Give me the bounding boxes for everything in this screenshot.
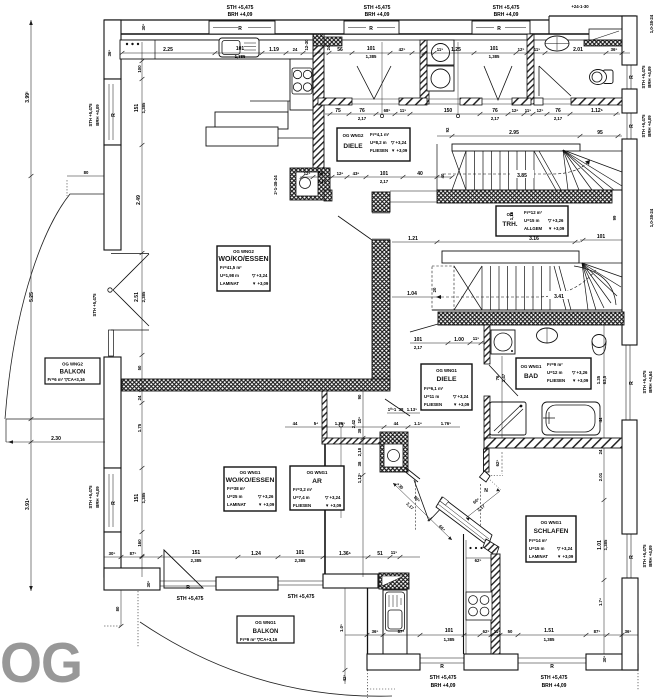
svg-text:N: N (484, 488, 488, 494)
svg-text:11⁵: 11⁵ (437, 47, 444, 52)
svg-text:76: 76 (495, 375, 500, 380)
svg-text:DIELE: DIELE (436, 376, 456, 383)
svg-text:88⁵: 88⁵ (318, 171, 327, 177)
svg-text:BALKON: BALKON (253, 629, 279, 635)
svg-text:50: 50 (508, 629, 513, 634)
svg-text:90: 90 (357, 394, 362, 399)
svg-text:ALLGEM: ALLGEM (524, 226, 543, 231)
svg-text:AR: AR (312, 478, 322, 485)
svg-text:24: 24 (293, 47, 298, 52)
svg-text:1,385: 1,385 (603, 539, 608, 550)
svg-text:151: 151 (134, 494, 140, 503)
svg-text:63,5: 63,5 (602, 375, 607, 384)
svg-text:76: 76 (555, 108, 561, 114)
svg-text:STH +5,475: STH +5,475 (430, 675, 457, 681)
svg-text:1.51: 1.51 (544, 628, 554, 634)
svg-text:87⁵: 87⁵ (594, 629, 601, 634)
svg-text:44: 44 (598, 417, 603, 422)
svg-text:2,17: 2,17 (358, 116, 367, 121)
svg-text:101: 101 (445, 628, 454, 634)
svg-text:R: R (550, 664, 554, 670)
svg-text:FLIESEN: FLIESEN (370, 148, 388, 153)
svg-text:30⁵: 30⁵ (146, 581, 151, 588)
svg-text:2,17: 2,17 (380, 179, 389, 184)
svg-text:R: R (238, 26, 242, 32)
svg-text:BRH +4,64: BRH +4,64 (648, 371, 653, 393)
svg-text:SCHLAFEN: SCHLAFEN (534, 528, 569, 535)
svg-text:LAMINAT: LAMINAT (220, 281, 239, 286)
svg-text:2.95: 2.95 (509, 130, 519, 136)
svg-text:Fr=12 m²: Fr=12 m² (524, 210, 543, 215)
svg-text:BRH +4,09: BRH +4,09 (95, 104, 100, 126)
svg-text:STH +5,475: STH +5,475 (92, 293, 97, 317)
svg-text:20: 20 (432, 287, 437, 292)
svg-text:Fr=41,5 m²: Fr=41,5 m² (220, 265, 242, 270)
svg-text:1.04: 1.04 (407, 291, 417, 297)
svg-text:STH +5,475: STH +5,475 (227, 5, 254, 11)
svg-text:151: 151 (192, 550, 201, 556)
svg-text:24: 24 (326, 45, 331, 50)
svg-text:38: 38 (357, 428, 362, 433)
svg-text:5⁴: 5⁴ (314, 421, 319, 426)
svg-text:2,385: 2,385 (191, 558, 202, 563)
svg-text:1,385: 1,385 (544, 637, 555, 642)
svg-text:1.13⁵: 1.13⁵ (407, 407, 417, 412)
svg-text:STH +5,475: STH +5,475 (642, 544, 647, 568)
svg-text:U=11 m: U=11 m (424, 394, 439, 399)
svg-text:99: 99 (612, 215, 617, 220)
svg-text:2,17: 2,17 (554, 116, 563, 121)
svg-text:R: R (629, 75, 635, 79)
svg-text:BRH +4,09: BRH +4,09 (365, 12, 390, 18)
svg-text:101: 101 (367, 46, 376, 52)
svg-text:U=15 m: U=15 m (524, 218, 540, 223)
svg-text:OG WNG1: OG WNG1 (541, 520, 562, 525)
svg-text:11⁵: 11⁵ (473, 336, 480, 341)
svg-text:Fr=38 m²: Fr=38 m² (227, 486, 246, 491)
svg-text:▽ +3,26: ▽ +3,26 (571, 370, 588, 375)
svg-text:30⁵: 30⁵ (141, 24, 146, 31)
svg-text:40: 40 (440, 173, 445, 178)
svg-text:BRH +4,09: BRH +4,09 (494, 12, 519, 18)
svg-text:1.7⁴: 1.7⁴ (598, 598, 603, 606)
svg-text:1.12⁵: 1.12⁵ (591, 108, 604, 114)
svg-text:12⁵: 12⁵ (518, 47, 525, 52)
svg-text:FLIESEN: FLIESEN (424, 402, 442, 407)
svg-text:1.35: 1.35 (596, 375, 601, 384)
svg-text:▽ +3,24: ▽ +3,24 (251, 273, 268, 278)
svg-text:▽ +3,26: ▽ +3,26 (547, 218, 564, 223)
svg-text:STH +5,475: STH +5,475 (641, 114, 646, 138)
svg-text:OG WNG2: OG WNG2 (233, 249, 254, 254)
svg-text:R: R (440, 664, 444, 670)
svg-text:▼ +3,09: ▼ +3,09 (325, 503, 342, 508)
svg-text:2,47: 2,47 (501, 373, 506, 382)
svg-text:Fr=4,1 m²: Fr=4,1 m² (370, 132, 390, 137)
svg-text:FLIESEN: FLIESEN (547, 378, 565, 383)
svg-text:1.25: 1.25 (451, 47, 461, 53)
svg-text:+24-1-30: +24-1-30 (571, 4, 589, 9)
svg-text:LAMINAT: LAMINAT (529, 554, 548, 559)
svg-text:101: 101 (236, 46, 245, 52)
svg-text:75: 75 (335, 108, 341, 114)
svg-text:1.36⁵: 1.36⁵ (339, 551, 352, 557)
svg-text:Fr=14 m²: Fr=14 m² (529, 538, 548, 543)
svg-text:FLIESEN: FLIESEN (293, 503, 311, 508)
svg-text:2.25: 2.25 (163, 47, 173, 53)
svg-text:10⁵: 10⁵ (357, 417, 362, 424)
svg-text:▼ +3,09: ▼ +3,09 (258, 502, 275, 507)
svg-text:STH +5,475: STH +5,475 (288, 594, 315, 600)
svg-text:OG WNG1: OG WNG1 (436, 368, 457, 373)
svg-text:R: R (629, 555, 635, 559)
svg-text:2.30: 2.30 (51, 436, 61, 442)
svg-text:2.49: 2.49 (136, 195, 142, 205)
svg-text:76: 76 (492, 108, 498, 114)
svg-text:36⁵: 36⁵ (372, 629, 379, 634)
svg-text:BRH +4,09: BRH +4,09 (228, 12, 253, 18)
svg-text:STH +5,475: STH +5,475 (493, 5, 520, 11)
svg-text:BRH +4,09: BRH +4,09 (647, 115, 652, 137)
svg-text:R: R (369, 26, 373, 32)
svg-text:24: 24 (137, 395, 142, 400)
svg-text:36⁵: 36⁵ (107, 50, 112, 57)
svg-text:95: 95 (597, 130, 603, 136)
svg-text:R: R (629, 381, 635, 385)
svg-text:U=25 m: U=25 m (227, 494, 243, 499)
svg-text:2.51: 2.51 (134, 292, 140, 302)
svg-text:STH +5,475: STH +5,475 (88, 485, 93, 509)
svg-text:92: 92 (445, 127, 450, 132)
svg-text:R: R (497, 26, 501, 32)
svg-text:100: 100 (137, 65, 142, 73)
svg-text:BAD: BAD (524, 373, 538, 380)
svg-text:62⁵: 62⁵ (475, 558, 482, 563)
svg-text:OG WNG1: OG WNG1 (255, 620, 276, 625)
svg-text:Fr=9 m²: Fr=9 m² (547, 362, 563, 367)
svg-text:2,385: 2,385 (295, 558, 306, 563)
svg-text:1,385: 1,385 (235, 54, 246, 59)
svg-text:3.85: 3.85 (517, 173, 527, 179)
svg-text:▼ +3,09: ▼ +3,09 (572, 378, 589, 383)
svg-text:101: 101 (296, 550, 305, 556)
svg-text:1,385: 1,385 (141, 102, 146, 113)
svg-text:101: 101 (490, 46, 499, 52)
svg-text:36⁵: 36⁵ (625, 629, 632, 634)
svg-text:STH +5,475: STH +5,475 (364, 5, 391, 11)
svg-text:1.76⁵: 1.76⁵ (441, 421, 451, 426)
svg-text:1.26⁵: 1.26⁵ (335, 421, 345, 426)
svg-text:U=7,4 m: U=7,4 m (293, 495, 310, 500)
svg-text:42⁵: 42⁵ (399, 47, 406, 52)
svg-text:BRH +4,09: BRH +4,09 (647, 66, 652, 88)
svg-text:1.24: 1.24 (251, 551, 261, 557)
svg-text:▼ +3,09: ▼ +3,09 (557, 554, 574, 559)
svg-text:1.75: 1.75 (137, 423, 142, 432)
svg-text:2,42: 2,42 (351, 419, 356, 428)
svg-text:1,385: 1,385 (489, 54, 500, 59)
svg-text:U=8,2 m: U=8,2 m (370, 140, 387, 145)
svg-text:50: 50 (137, 365, 142, 370)
svg-text:44: 44 (394, 421, 399, 426)
svg-text:BRH +4,09: BRH +4,09 (431, 683, 456, 689)
svg-text:1,385: 1,385 (141, 492, 146, 503)
svg-text:42⁵: 42⁵ (342, 675, 347, 682)
svg-text:1,0-38-24: 1,0-38-24 (649, 208, 654, 227)
svg-text:R: R (111, 501, 117, 505)
svg-text:OG WNG1: OG WNG1 (521, 364, 542, 369)
svg-text:▽ +3,24: ▽ +3,24 (390, 140, 407, 145)
svg-text:WO/KO/ESSEN: WO/KO/ESSEN (218, 256, 268, 263)
svg-text:BRH +4,09: BRH +4,09 (648, 545, 653, 567)
svg-text:STH +5,475: STH +5,475 (641, 65, 646, 89)
svg-text:▽ +3,24: ▽ +3,24 (556, 546, 573, 551)
svg-text:30⁵: 30⁵ (602, 656, 607, 663)
svg-text:BALKON: BALKON (60, 370, 86, 376)
svg-text:80: 80 (115, 606, 120, 611)
svg-text:2⁶1-38-24: 2⁶1-38-24 (273, 175, 278, 195)
svg-text:1,0-38-24: 1,0-38-24 (649, 14, 654, 33)
svg-text:▽ +3,24: ▽ +3,24 (452, 394, 469, 399)
svg-text:WO/KO/ESSEN: WO/KO/ESSEN (226, 477, 275, 484)
svg-text:101: 101 (597, 234, 606, 240)
svg-text:R: R (629, 124, 635, 128)
svg-text:OG WNG1: OG WNG1 (240, 470, 261, 475)
svg-text:62⁵: 62⁵ (495, 460, 500, 467)
svg-text:11⁵: 11⁵ (400, 108, 407, 113)
svg-text:12⁵: 12⁵ (537, 108, 544, 113)
svg-text:STH +5,475: STH +5,475 (177, 596, 204, 602)
svg-text:▼ +3,09: ▼ +3,09 (252, 281, 269, 286)
svg-text:24: 24 (598, 449, 603, 454)
svg-text:101: 101 (380, 171, 389, 177)
svg-text:U=12 m: U=12 m (547, 370, 563, 375)
svg-text:1.21: 1.21 (408, 236, 418, 242)
svg-text:1,385: 1,385 (366, 54, 377, 59)
svg-text:OG: OG (0, 631, 82, 695)
svg-text:▼ +3,09: ▼ +3,09 (391, 148, 408, 153)
svg-text:3.91⁵: 3.91⁵ (25, 497, 31, 510)
svg-text:5.25: 5.25 (29, 292, 35, 302)
svg-text:2.01: 2.01 (598, 472, 603, 481)
svg-text:OG WNG2: OG WNG2 (343, 133, 364, 138)
svg-text:3.99¹: 3.99¹ (25, 91, 31, 103)
svg-text:11⁵: 11⁵ (391, 550, 398, 555)
svg-text:▽ +3,26: ▽ +3,26 (257, 494, 274, 499)
svg-text:R: R (111, 113, 117, 117)
svg-text:1.0⁵: 1.0⁵ (339, 624, 344, 632)
svg-text:DIELE: DIELE (343, 143, 363, 150)
svg-text:OG WNG2: OG WNG2 (62, 362, 83, 367)
svg-text:Fr=6 m² ▽CA+3,16: Fr=6 m² ▽CA+3,16 (48, 377, 86, 382)
svg-text:160: 160 (137, 539, 142, 547)
svg-text:STH +5,475: STH +5,475 (88, 103, 93, 127)
svg-text:BRH +4,09: BRH +4,09 (542, 683, 567, 689)
svg-text:1.00: 1.00 (454, 337, 464, 343)
svg-text:▽ +3,24: ▽ +3,24 (324, 495, 341, 500)
svg-text:87⁵: 87⁵ (130, 551, 137, 556)
svg-text:U=15 m: U=15 m (529, 546, 545, 551)
svg-text:76: 76 (359, 108, 365, 114)
svg-text:12⁵: 12⁵ (304, 171, 311, 176)
svg-text:11⁵: 11⁵ (494, 629, 501, 634)
svg-text:12-30: 12-30 (304, 39, 309, 51)
svg-text:1,13⁵: 1,13⁵ (357, 473, 362, 483)
svg-text:STH +5,475: STH +5,475 (541, 675, 568, 681)
svg-text:2,385: 2,385 (141, 291, 146, 302)
svg-text:1⁰⁵1: 1⁰⁵1 (388, 407, 397, 412)
svg-text:87⁵: 87⁵ (398, 629, 405, 634)
svg-text:80: 80 (84, 170, 89, 175)
svg-text:3.16: 3.16 (529, 236, 539, 242)
svg-text:101: 101 (414, 337, 423, 343)
svg-text:62⁵: 62⁵ (483, 629, 490, 634)
svg-text:12⁶: 12⁶ (512, 108, 519, 113)
svg-text:11⁵: 11⁵ (534, 47, 541, 52)
svg-text:3.41: 3.41 (554, 294, 564, 300)
svg-text:BRH +4,09: BRH +4,09 (95, 486, 100, 508)
svg-text:Fr=9 m² ▽CA+3,16: Fr=9 m² ▽CA+3,16 (240, 637, 278, 642)
svg-text:40: 40 (417, 171, 423, 177)
svg-text:44: 44 (293, 421, 298, 426)
svg-text:150: 150 (444, 108, 453, 114)
svg-text:51: 51 (377, 551, 383, 557)
svg-text:1.1⁶: 1.1⁶ (414, 421, 422, 426)
svg-text:38: 38 (399, 407, 404, 412)
svg-text:36⁵: 36⁵ (611, 47, 618, 52)
svg-text:STH +5,475: STH +5,475 (642, 370, 647, 394)
svg-text:2,18: 2,18 (357, 447, 362, 456)
svg-text:43⁶: 43⁶ (353, 171, 360, 176)
svg-text:12⁶: 12⁶ (337, 171, 344, 176)
svg-text:1,385: 1,385 (444, 637, 455, 642)
svg-text:2,17: 2,17 (318, 179, 327, 184)
svg-text:1.19: 1.19 (269, 47, 279, 53)
svg-text:LAMINAT: LAMINAT (227, 502, 246, 507)
svg-text:11⁵: 11⁵ (525, 108, 532, 113)
svg-text:▼ +3,09: ▼ +3,09 (453, 402, 470, 407)
svg-text:68⁵: 68⁵ (384, 108, 391, 113)
svg-text:U=1,98 m: U=1,98 m (220, 273, 239, 278)
svg-text:2,17: 2,17 (414, 345, 423, 350)
svg-text:2.01: 2.01 (573, 47, 583, 53)
svg-text:1,16: 1,16 (509, 211, 514, 220)
svg-text:Fr=3,2 m²: Fr=3,2 m² (293, 487, 313, 492)
svg-text:30⁵: 30⁵ (109, 551, 116, 556)
svg-text:TRH.: TRH. (502, 221, 517, 228)
svg-text:▼ +3,09: ▼ +3,09 (548, 226, 565, 231)
svg-text:OG WNG1: OG WNG1 (307, 470, 328, 475)
svg-text:38: 38 (357, 461, 362, 466)
svg-text:56: 56 (337, 47, 343, 53)
svg-text:151: 151 (134, 104, 140, 113)
svg-text:Fr=6,1 m²: Fr=6,1 m² (424, 386, 444, 391)
svg-text:2,17: 2,17 (491, 116, 500, 121)
